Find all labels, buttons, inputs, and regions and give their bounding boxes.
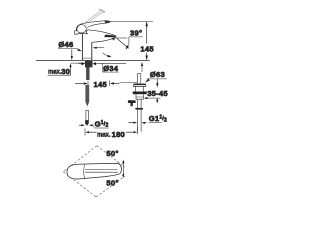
- pull rod: [86, 110, 89, 120]
- faucet body: [81, 34, 83, 60]
- mounting nut (dark): [85, 61, 93, 67]
- svg-text:30: 30: [61, 67, 70, 76]
- dimension 35-45: top arrow: [156, 79, 158, 84]
- top view: handle outline: [67, 163, 122, 179]
- svg-text:145: 145: [140, 44, 154, 53]
- waste body upper: [136, 86, 144, 91]
- waste plug stem: [137, 74, 140, 84]
- tailpipe ring (dark): [135, 108, 143, 110]
- svg-text:50°: 50°: [106, 178, 118, 187]
- left tab on body: [75, 31, 78, 34]
- dimension max.30: bottom arrow and bracket: [70, 67, 72, 75]
- top view: grip-neck joint: [84, 164, 85, 179]
- dimension 145 vertical: line and arrows: [146, 22, 148, 43]
- countertop line: [36, 59, 150, 61]
- svg-text:39°: 39°: [130, 28, 142, 37]
- pull rod knob (dark): [85, 120, 89, 125]
- svg-text:max.: max.: [48, 70, 62, 76]
- spout underside: [92, 38, 116, 43]
- arc arrow under spout (left): [96, 47, 104, 49]
- arc arrow under spout (right): [102, 53, 108, 57]
- dimension 35-45: bottom arrow: [156, 97, 158, 100]
- flexible hose bundle (dark): [85, 85, 89, 107]
- svg-text:35-45: 35-45: [147, 89, 168, 98]
- label D63: leader arrow: [145, 79, 150, 83]
- lever handle (closed position): [80, 21, 111, 28]
- top extension line (height reference): [110, 20, 153, 22]
- waste locknut (dark): [133, 92, 147, 95]
- side port for pop-up rod (dark): [128, 100, 135, 103]
- svg-text:180: 180: [112, 130, 125, 139]
- dimension max.180: [84, 128, 86, 135]
- dimension max.30: top arrow: [71, 49, 73, 56]
- waste tailpipe: [137, 99, 141, 131]
- waste flange (dark top): [133, 84, 145, 86]
- dimension 145 horizontal: [87, 81, 89, 88]
- svg-text:Ø34: Ø34: [103, 64, 119, 73]
- angle 39 degrees: rays: [117, 37, 128, 39]
- dimension 35-45: underline with arrow: [145, 97, 161, 99]
- svg-text:max.: max.: [97, 133, 111, 139]
- spout tip / aerator (solid): [104, 35, 116, 38]
- svg-text:Ø63: Ø63: [150, 70, 165, 79]
- svg-text:50°: 50°: [106, 149, 118, 158]
- hole diameter arrows D34: [78, 63, 81, 65]
- label D34: box and text: [103, 63, 119, 72]
- top view: swing angle double arrow: [122, 163, 124, 175]
- thread callout G1/2 arrows: [79, 124, 82, 126]
- raised lever (open position, thin lines): [84, 9, 105, 25]
- angle 39 degrees: leader with arrow: [127, 37, 143, 48]
- svg-text:G1/2: G1/2: [95, 120, 109, 129]
- svg-text:145: 145: [94, 80, 108, 89]
- counter underside line: [71, 62, 85, 64]
- waste plug pop-up arrow: [141, 66, 143, 73]
- thread callout G1 1/2 arrows at tailpipe: [128, 122, 133, 124]
- spout top edge: [88, 30, 116, 36]
- waste body lower: [136, 94, 144, 99]
- lever knob: [76, 25, 86, 33]
- mounting shank (dark): [86, 61, 89, 81]
- top view: dashed swing envelope: [63, 146, 125, 197]
- top view: neck lines: [85, 169, 118, 172]
- svg-text:G11/2: G11/2: [149, 114, 167, 123]
- label D46: leader arrow: [76, 48, 78, 49]
- svg-text:Ø46: Ø46: [58, 40, 73, 49]
